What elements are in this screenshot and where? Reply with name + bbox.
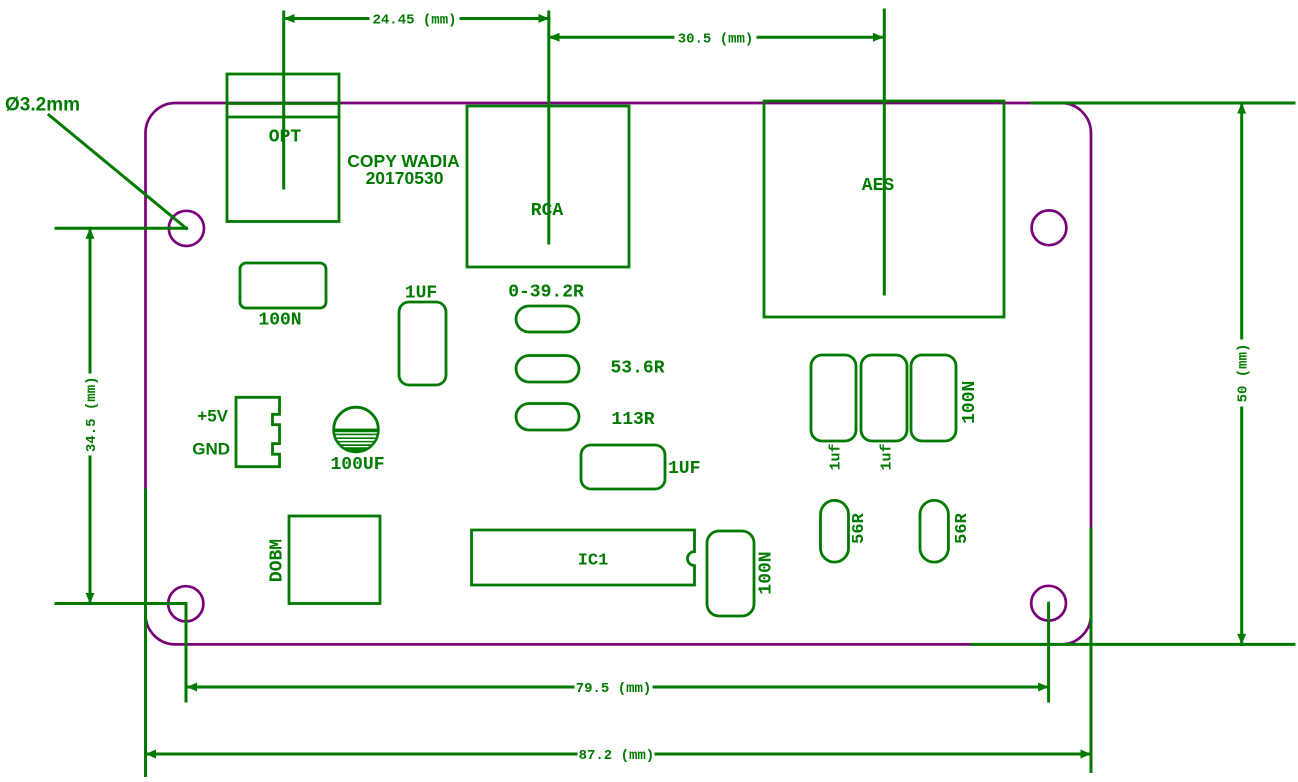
svg-text:0-39.2R: 0-39.2R <box>508 283 584 303</box>
capacitor 1UF vertical <box>399 302 446 385</box>
mounting hole BR <box>1031 586 1066 621</box>
dimension 87.2mm arrows <box>146 750 1092 759</box>
dimension 79.5mm arrows <box>187 683 1049 692</box>
capacitor 100N right of IC1 <box>707 531 754 616</box>
svg-text:20170530: 20170530 <box>366 168 444 188</box>
dimension 50mm vertical line <box>972 103 1294 644</box>
board outline <box>146 103 1092 644</box>
connector OPT outline <box>227 74 339 222</box>
dimension 79.5mm line <box>186 603 1049 701</box>
svg-text:DOBM: DOBM <box>268 539 288 582</box>
capacitor 100UF electrolytic <box>330 407 382 452</box>
svg-text:79.5 (mm): 79.5 (mm) <box>576 681 652 697</box>
svg-text:Ø3.2mm: Ø3.2mm <box>5 95 80 116</box>
dimension 87.2mm line <box>146 490 1092 776</box>
resistor pill 0-39.2R <box>516 306 579 332</box>
dimension 24.45mm arrows <box>284 14 549 23</box>
svg-text:RCA: RCA <box>531 201 564 221</box>
connector RCA outline <box>467 106 629 267</box>
resistor pill 113R <box>516 404 579 431</box>
capacitor 1UF horizontal <box>581 445 665 489</box>
dimension 50mm arrows <box>1237 103 1246 644</box>
dimension 30.5mm line <box>549 36 884 39</box>
svg-text:OPT: OPT <box>269 128 302 148</box>
svg-text:113R: 113R <box>611 410 654 430</box>
svg-text:1UF: 1UF <box>405 284 437 304</box>
mounting hole BL <box>168 586 203 621</box>
mounting hole TL <box>169 211 204 246</box>
svg-text:30.5 (mm): 30.5 (mm) <box>678 31 754 47</box>
svg-text:+5V: +5V <box>197 407 228 426</box>
capacitor 1uf #1 <box>811 355 856 441</box>
IC U1 outline <box>472 530 695 585</box>
resistor 56R #1 <box>821 500 849 562</box>
svg-text:1uf: 1uf <box>828 443 845 470</box>
svg-text:1uf: 1uf <box>879 443 896 470</box>
module DOBM <box>289 516 380 604</box>
capacitor 100N top-left <box>240 263 326 308</box>
connector AES outline <box>764 101 1004 317</box>
AES centerline / 30.5 right extension <box>883 10 886 294</box>
svg-text:53.6R: 53.6R <box>610 359 664 379</box>
connector +5V/GND <box>236 397 280 466</box>
hole diameter leader <box>49 115 186 228</box>
svg-text:87.2 (mm): 87.2 (mm) <box>579 748 655 764</box>
dimension 34.5mm vertical line <box>56 228 186 603</box>
OPT centerline / 24.45 left extension <box>282 12 285 188</box>
dimension 24.45mm line <box>284 17 549 20</box>
svg-text:100N: 100N <box>960 381 980 424</box>
RCA centerline / shared extension <box>547 12 550 243</box>
resistor 56R #2 <box>920 500 948 562</box>
svg-text:GND: GND <box>192 440 230 459</box>
svg-text:100N: 100N <box>258 311 301 331</box>
svg-text:24.45 (mm): 24.45 (mm) <box>372 13 456 29</box>
resistor pill 53.6R <box>516 356 579 383</box>
dimension 34.5mm arrows <box>86 228 95 603</box>
svg-text:34.5 (mm): 34.5 (mm) <box>84 376 100 452</box>
mounting hole TR <box>1032 210 1067 245</box>
svg-text:AES: AES <box>862 176 895 196</box>
svg-text:1UF: 1UF <box>668 459 700 479</box>
svg-text:50 (mm): 50 (mm) <box>1236 344 1252 403</box>
capacitor 100N #3 <box>911 355 956 441</box>
svg-text:56R: 56R <box>850 512 869 543</box>
capacitor 1uf #2 <box>861 355 907 441</box>
svg-text:100N: 100N <box>757 551 777 594</box>
dimension 30.5mm arrows <box>549 33 884 42</box>
svg-text:100UF: 100UF <box>330 455 384 475</box>
svg-text:56R: 56R <box>953 512 972 543</box>
svg-text:IC1: IC1 <box>578 552 609 571</box>
